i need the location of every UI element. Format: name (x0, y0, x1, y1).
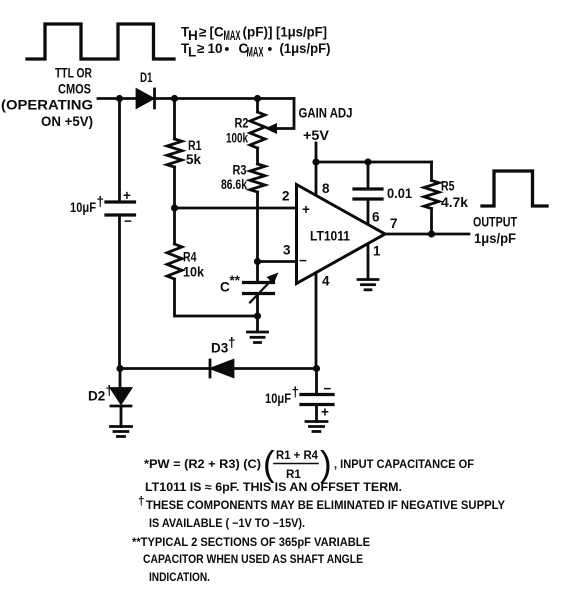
input square wave (27, 24, 174, 59)
svg-text:, INPUT CAPACITANCE OF: , INPUT CAPACITANCE OF (334, 458, 474, 471)
diode D3 (210, 335, 236, 377)
svg-text:5k: 5k (186, 152, 202, 167)
svg-text:−: − (324, 381, 332, 396)
svg-text:6: 6 (372, 210, 380, 225)
node input junction (116, 95, 123, 102)
svg-text:10: 10 (208, 41, 223, 56)
ground below bottom cap (306, 422, 327, 432)
svg-text:MAX: MAX (247, 45, 264, 60)
resistor R1 (167, 99, 202, 209)
resistor R4 (167, 208, 258, 316)
svg-text:†: † (138, 495, 144, 508)
svg-text:D2: D2 (88, 388, 105, 403)
node pin8 rail (312, 158, 319, 165)
svg-text:(1μs/pF): (1μs/pF) (280, 41, 331, 56)
svg-text:R5: R5 (441, 179, 455, 194)
variable capacitor C (220, 262, 279, 317)
svg-text:†: † (106, 383, 114, 398)
svg-text:+: + (321, 405, 329, 420)
svg-text:C: C (220, 280, 230, 295)
wire pin 6 stub is in cap group; wire pin 1 (367, 244, 370, 279)
svg-text:10μF: 10μF (70, 200, 96, 215)
ground below pin 1 (358, 280, 378, 290)
diode D1 (137, 70, 155, 108)
svg-text:(pF)]: (pF)] (243, 25, 273, 40)
svg-text:LT1011: LT1011 (310, 229, 350, 244)
wire R3 to pin3 node (256, 192, 259, 262)
svg-text:GAIN ADJ: GAIN ADJ (299, 105, 353, 120)
svg-text:): ) (320, 445, 332, 484)
svg-text:CAPACITOR WHEN USED AS SHAFT A: CAPACITOR WHEN USED AS SHAFT ANGLE (143, 553, 363, 566)
svg-text:1μs/pF: 1μs/pF (474, 231, 516, 246)
footnote line 5 (132, 536, 370, 549)
footnote line 4 (149, 517, 305, 530)
svg-text:R2: R2 (235, 116, 249, 131)
wire gain adj feedback (276, 99, 294, 129)
svg-text:ON +5V): ON +5V) (41, 114, 93, 129)
resistor R3 (221, 162, 265, 192)
svg-text:7: 7 (390, 216, 398, 231)
wire output pin 7 (385, 233, 469, 236)
svg-text:≥: ≥ (197, 41, 205, 56)
wire R2 to R3 (256, 148, 259, 164)
svg-text:IS AVAILABLE ( −1V TO −15V).: IS AVAILABLE ( −1V TO −15V). (149, 517, 305, 530)
svg-text:100k: 100k (226, 130, 248, 145)
svg-text:−: − (299, 253, 307, 268)
diode D2 (88, 369, 131, 427)
svg-text:+: + (123, 188, 131, 203)
output square wave (482, 171, 547, 206)
input label TTL OR CMOS (1, 66, 93, 130)
ground below C (248, 316, 268, 343)
svg-text:≥: ≥ (199, 25, 207, 40)
svg-text:10k: 10k (183, 265, 204, 280)
capacitor C2 10uF bottom (265, 369, 333, 422)
node R1 R4 junction (171, 204, 178, 211)
node D2 junction (116, 365, 123, 372)
svg-text:1: 1 (373, 243, 381, 258)
formula TL (181, 41, 331, 60)
capacitor C1 10uF left (70, 99, 135, 369)
resistor R5 (424, 162, 468, 234)
op-amp U1 LT1011 (282, 181, 398, 288)
wire pin 3 (258, 260, 297, 263)
node bottom cap junction (313, 365, 320, 372)
node C bottom junction (254, 312, 261, 319)
svg-text:OUTPUT: OUTPUT (473, 215, 518, 230)
svg-text:R3: R3 (233, 162, 247, 177)
svg-text:2: 2 (282, 189, 290, 204)
potentiometer R2 (226, 99, 265, 149)
wire +5V to rail (315, 143, 318, 162)
svg-text:−: − (124, 214, 132, 229)
svg-text:D3: D3 (211, 340, 229, 355)
bottom wire D3 path (120, 367, 317, 370)
node cap rail (364, 158, 371, 165)
label GAIN ADJ (299, 105, 353, 120)
footnote line 7 (149, 571, 210, 584)
wire input to D1 (98, 97, 137, 100)
node R1 top (171, 95, 178, 102)
svg-text:[C: [C (210, 25, 224, 40)
svg-text:TTL OR: TTL OR (55, 66, 92, 81)
wire D1 to R2 top rail (155, 97, 295, 100)
wire pin 2 (175, 207, 297, 210)
svg-text:LT1011 IS ≈ 6pF. THIS IS AN OF: LT1011 IS ≈ 6pF. THIS IS AN OFFSET TERM. (145, 481, 402, 494)
svg-text:*PW = (R2 + R3) (C): *PW = (R2 + R3) (C) (144, 458, 261, 471)
node pin3 junction (254, 258, 261, 265)
svg-text:R4: R4 (183, 250, 197, 265)
svg-text:8: 8 (322, 181, 330, 196)
svg-text:R1: R1 (286, 468, 301, 481)
svg-text:†: † (228, 335, 236, 350)
svg-text:R1: R1 (188, 138, 202, 153)
footnote line 6 (143, 553, 363, 566)
svg-text:[1μs/pF]: [1μs/pF] (276, 25, 327, 40)
node R2 top (254, 95, 261, 102)
node output junction (428, 230, 435, 237)
svg-text:L: L (188, 45, 196, 60)
svg-text:R1 + R4: R1 + R4 (276, 449, 319, 462)
svg-text:•: • (268, 42, 273, 57)
svg-text:+: + (302, 202, 310, 217)
svg-text:THESE COMPONENTS MAY BE ELIMIN: THESE COMPONENTS MAY BE ELIMINATED IF NE… (146, 499, 505, 512)
wire pin 4 (315, 273, 318, 369)
svg-text:•: • (225, 42, 230, 57)
footnote line 2 (145, 481, 402, 494)
footnote PW formula (144, 445, 474, 484)
svg-text:+5V: +5V (303, 128, 329, 143)
svg-text:4.7k: 4.7k (441, 195, 468, 210)
svg-text:0.01: 0.01 (387, 186, 412, 201)
svg-text:86.6k: 86.6k (221, 177, 247, 192)
supply rail (316, 161, 432, 164)
capacitor 0.01 (354, 162, 412, 225)
wire pin 8 (315, 162, 318, 196)
svg-text:4: 4 (322, 274, 330, 289)
label OUTPUT (473, 215, 518, 247)
ground below D2 (111, 427, 132, 437)
svg-text:D1: D1 (140, 70, 153, 85)
svg-text:**TYPICAL 2 SECTIONS OF 365pF: **TYPICAL 2 SECTIONS OF 365pF VARIABLE (132, 536, 370, 549)
wiper arrow of R2 (265, 123, 277, 134)
svg-text:3: 3 (283, 243, 291, 258)
svg-text:†: † (97, 194, 105, 209)
svg-text:CMOS: CMOS (58, 82, 91, 97)
svg-text:10μF: 10μF (265, 391, 291, 406)
svg-text:INDICATION.: INDICATION. (149, 571, 210, 584)
svg-text:**: ** (230, 273, 241, 288)
footnote line 3 (138, 495, 505, 512)
fraction bar (274, 463, 318, 465)
label +5V (303, 128, 329, 143)
svg-text:(OPERATING: (OPERATING (1, 98, 93, 113)
formula TH (181, 25, 327, 44)
svg-text:†: † (292, 385, 300, 400)
